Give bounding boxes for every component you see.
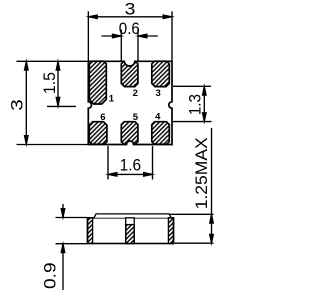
dimension 1.5: dimension line with arrows: [55, 58, 60, 109]
dimension 3 left: extension lines: [17, 61, 89, 144]
dimension 0.6: dimension line with outside arrows: [102, 33, 158, 38]
pin number 1: [109, 94, 115, 105]
side view: body: [88, 218, 174, 244]
dimension 1.3: extension lines: [173, 86, 212, 121]
pad 1 (top-left, long): [89, 61, 106, 104]
svg-text:6: 6: [100, 112, 105, 123]
svg-text:2: 2: [133, 88, 138, 99]
dimension 0.6: value text: [119, 19, 140, 38]
svg-text:1.6: 1.6: [120, 155, 142, 174]
dimension 1.5: value text (rotated): [40, 72, 59, 94]
svg-text:1.3: 1.3: [185, 94, 204, 115]
dimension 3 left: dimension line with arrows: [24, 58, 29, 147]
dimension 0.9: value text (rotated): [41, 262, 60, 289]
svg-text:0.6: 0.6: [119, 19, 140, 38]
dimension 0.9: dimension line with outside arrows: [60, 204, 65, 290]
dimension 1.3: dimension line with arrows: [202, 83, 207, 124]
svg-text:0.9: 0.9: [41, 262, 60, 289]
svg-text:1.25MAX: 1.25MAX: [192, 137, 211, 209]
svg-text:4: 4: [155, 111, 161, 122]
dimension 1.5: bottom tick line: [47, 105, 76, 107]
notch top (white cut into pad 2): [124, 60, 135, 66]
dimension 1.25MAX: value text (rotated): [192, 137, 211, 209]
side view: lid: [94, 214, 171, 218]
pad 5 (bottom-center): [121, 122, 138, 145]
pin number 2: [133, 88, 138, 99]
pin number 5: [133, 112, 139, 123]
svg-text:1.5: 1.5: [40, 72, 59, 94]
pad 2 (top-center): [121, 61, 138, 86]
side view: center via block: [126, 218, 135, 244]
pad 6 (bottom-left): [89, 122, 107, 145]
dimension 3 top: extension lines: [88, 11, 172, 61]
dimension 1.3: value text (rotated): [185, 94, 204, 115]
package body outline (top view): [88, 61, 172, 144]
dimension 3 left: value text (rotated): [8, 99, 27, 111]
notch bottom (white cut into pad 5): [127, 141, 134, 146]
pin number 3: [156, 88, 161, 99]
dimension 1.6: value text: [120, 155, 142, 174]
svg-text:1: 1: [109, 94, 115, 105]
pin number 6: [100, 112, 105, 123]
dimension 1.25MAX: dimension line with arrows: [209, 128, 214, 246]
svg-text:3: 3: [125, 0, 136, 18]
dimension 1.6: dimension line with arrows: [105, 172, 156, 177]
svg-text:3: 3: [8, 99, 27, 111]
dimension 0.6: extension lines: [121, 30, 138, 62]
pin number 4: [155, 111, 161, 122]
dimension 0.9: extension lines: [56, 218, 88, 244]
pad 3 (top-right): [152, 61, 170, 86]
svg-text:3: 3: [156, 88, 161, 99]
side view: right terminal (hatched): [168, 218, 173, 244]
dimension 1.25MAX: extension lines: [167, 214, 214, 243]
svg-text:5: 5: [133, 112, 139, 123]
pad 4 (bottom-right): [152, 122, 170, 145]
dimension 3 top: value text: [125, 0, 136, 18]
dimension 3 top: dimension line with arrows: [85, 14, 175, 19]
side view: left terminal (hatched): [88, 218, 93, 244]
dimension 1.6: extension lines: [108, 146, 153, 180]
